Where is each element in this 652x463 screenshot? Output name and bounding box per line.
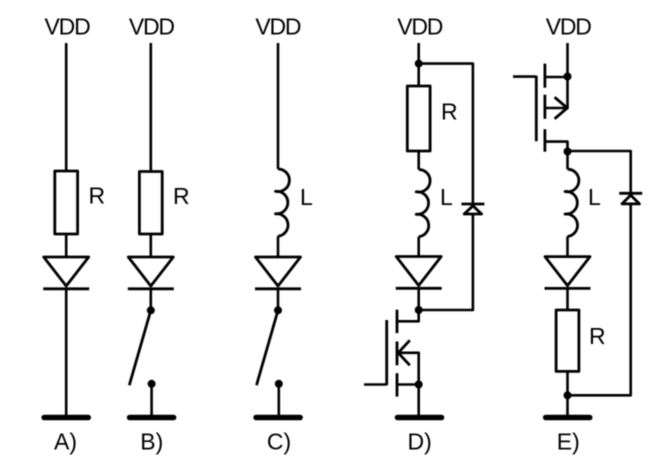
transistor Q1 NMOS (D): [364, 310, 423, 397]
body arrow of Q1: [398, 340, 410, 365]
svg-text:D): D): [408, 429, 432, 455]
drain node dot of Q2: [564, 148, 572, 156]
inductor L (C): [276, 169, 290, 236]
wire drain to inductor (E): [566, 152, 569, 170]
wire inductor to LED (D): [417, 237, 420, 257]
switch S (B): [129, 306, 155, 388]
svg-text:B): B): [140, 429, 163, 455]
source lead of Q2: [545, 76, 568, 79]
wire VDD to node (D): [417, 43, 420, 64]
svg-text:R: R: [589, 323, 606, 349]
svg-text:R: R: [89, 183, 106, 209]
wire LED to switch (C): [277, 289, 280, 311]
gate lead of Q1: [364, 383, 387, 386]
svg-text:E): E): [557, 429, 580, 455]
wire node to flyback branch top (D): [419, 64, 473, 204]
svg-text:VDD: VDD: [45, 14, 91, 40]
resistor R (D): [407, 86, 430, 151]
wire resistor to inductor (D): [417, 151, 420, 170]
gate bar of Q2: [535, 76, 538, 142]
body lead of Q2: [546, 77, 568, 108]
svg-text:C): C): [267, 429, 291, 455]
flyback diode D2 (E): [619, 193, 642, 204]
svg-text:VDD: VDD: [397, 14, 443, 40]
drain lead of Q1: [397, 310, 419, 321]
wire switch to ground (B): [150, 384, 153, 415]
wire inductor to LED (E): [566, 237, 569, 257]
channel dashes of Q1: [396, 310, 399, 333]
source lead of Q1: [397, 383, 419, 386]
wire resistor to bottom node (E): [566, 371, 569, 395]
svg-text:VDD: VDD: [129, 14, 175, 40]
svg-text:L: L: [588, 184, 601, 210]
node junction bottom (E): [564, 391, 572, 399]
ground (B): [130, 415, 174, 421]
wire inductor to LED (C): [277, 236, 280, 257]
source node dot of Q1: [415, 381, 423, 389]
wire LED to drain node (D): [417, 288, 420, 310]
source node dot of Q2: [564, 73, 572, 81]
drain lead of Q2: [545, 142, 568, 152]
body arrow of Q2: [555, 97, 568, 119]
wire VDD to resistor R (A): [65, 43, 68, 171]
ground (D): [398, 415, 442, 421]
svg-text:R: R: [173, 183, 190, 209]
switch S (C): [257, 306, 283, 388]
LED diode D (A): [43, 257, 89, 289]
wire bottom node to ground (E): [566, 395, 569, 415]
LED diode D (C): [255, 257, 301, 289]
node junction top (D): [415, 60, 423, 68]
wire switch to ground (C): [277, 384, 280, 415]
inductor L (E): [565, 169, 579, 236]
ground (E): [546, 415, 590, 421]
wire resistor to LED (A): [65, 234, 68, 257]
wire VDD to resistor R (B): [150, 43, 153, 172]
gate lead of Q2: [513, 75, 536, 78]
wire flyback diode to bottom node (E): [568, 204, 631, 395]
wire resistor to LED (B): [150, 234, 153, 257]
wire node to resistor R (D): [417, 64, 420, 86]
flyback diode D2 (D): [461, 204, 484, 214]
wire VDD to inductor L (C): [277, 43, 280, 169]
body lead of Q1: [397, 353, 419, 385]
inductor L (D): [416, 169, 430, 236]
svg-text:VDD: VDD: [255, 14, 301, 40]
LED diode D (E): [545, 257, 591, 289]
resistor R (A): [55, 171, 78, 234]
ground (C): [256, 415, 300, 421]
svg-text:R: R: [441, 99, 458, 125]
LED diode D (D): [396, 257, 442, 289]
wire source to ground (D): [417, 385, 420, 416]
transistor Q2 PMOS (E): [513, 64, 572, 156]
wire LED to resistor (E): [566, 288, 569, 310]
gate bar of Q1: [385, 320, 388, 385]
channel dashes of Q2: [544, 64, 547, 88]
resistor R (B): [139, 172, 162, 235]
LED diode D (B): [128, 257, 174, 289]
ground (A): [44, 415, 88, 421]
wire LED to ground (A): [65, 289, 68, 415]
wire drain node to flyback branch (E): [568, 151, 631, 193]
wire VDD to source node (E): [566, 43, 569, 77]
resistor R (E): [556, 310, 579, 371]
wire LED to switch (B): [150, 289, 153, 311]
svg-text:A): A): [54, 429, 77, 455]
svg-text:L: L: [440, 184, 453, 210]
svg-text:L: L: [300, 184, 313, 210]
node junction drain (D): [415, 306, 423, 314]
svg-text:VDD: VDD: [546, 14, 592, 40]
wire flyback diode to drain node (D): [419, 214, 473, 310]
